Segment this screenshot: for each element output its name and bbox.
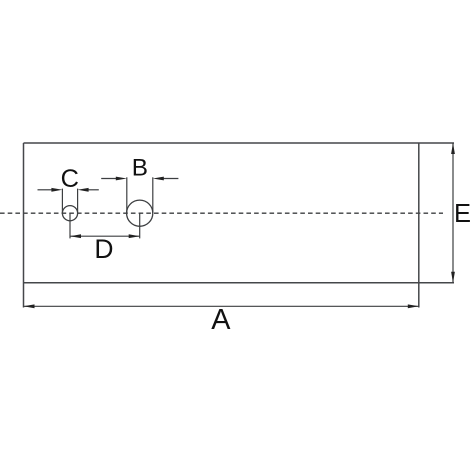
dimension B right arrow	[162, 178, 178, 180]
dimension C right arrow	[87, 189, 99, 191]
dimension D right arrowhead	[129, 234, 140, 238]
dimension E top arrowhead	[451, 143, 455, 154]
centerline (dashed axis through holes)	[0, 212, 443, 214]
plate outline bottom edge with E extension	[24, 282, 455, 284]
dimension C right extension line	[77, 189, 79, 214]
dimension E bottom arrowhead	[451, 272, 455, 283]
svg-text:E: E	[454, 200, 470, 228]
dimension B left arrow	[101, 178, 117, 180]
dimension A line	[24, 305, 419, 307]
svg-text:B: B	[132, 155, 148, 182]
dimension B left extension line	[126, 177, 128, 213]
dimension D right extension line	[139, 213, 141, 238]
dimension E line	[452, 143, 454, 283]
svg-text:D: D	[94, 234, 113, 264]
dimension D left extension line	[69, 213, 71, 238]
dimension A right arrowhead	[408, 304, 419, 308]
dimension C left extension line	[61, 189, 63, 214]
plate outline right edge with A extension	[418, 143, 420, 308]
hole C (small circle)	[62, 206, 77, 221]
dimension D line	[70, 235, 140, 237]
svg-text:A: A	[211, 304, 231, 336]
dimension D left arrowhead	[70, 234, 81, 238]
plate outline top edge with E extension	[24, 142, 455, 144]
dimension C left arrow	[38, 189, 54, 191]
plate outline left edge with A extension	[23, 143, 25, 308]
svg-text:C: C	[61, 165, 79, 193]
dimension B right extension line	[152, 177, 154, 213]
hole B (large circle)	[127, 200, 153, 226]
dimension A left arrowhead	[24, 304, 35, 308]
